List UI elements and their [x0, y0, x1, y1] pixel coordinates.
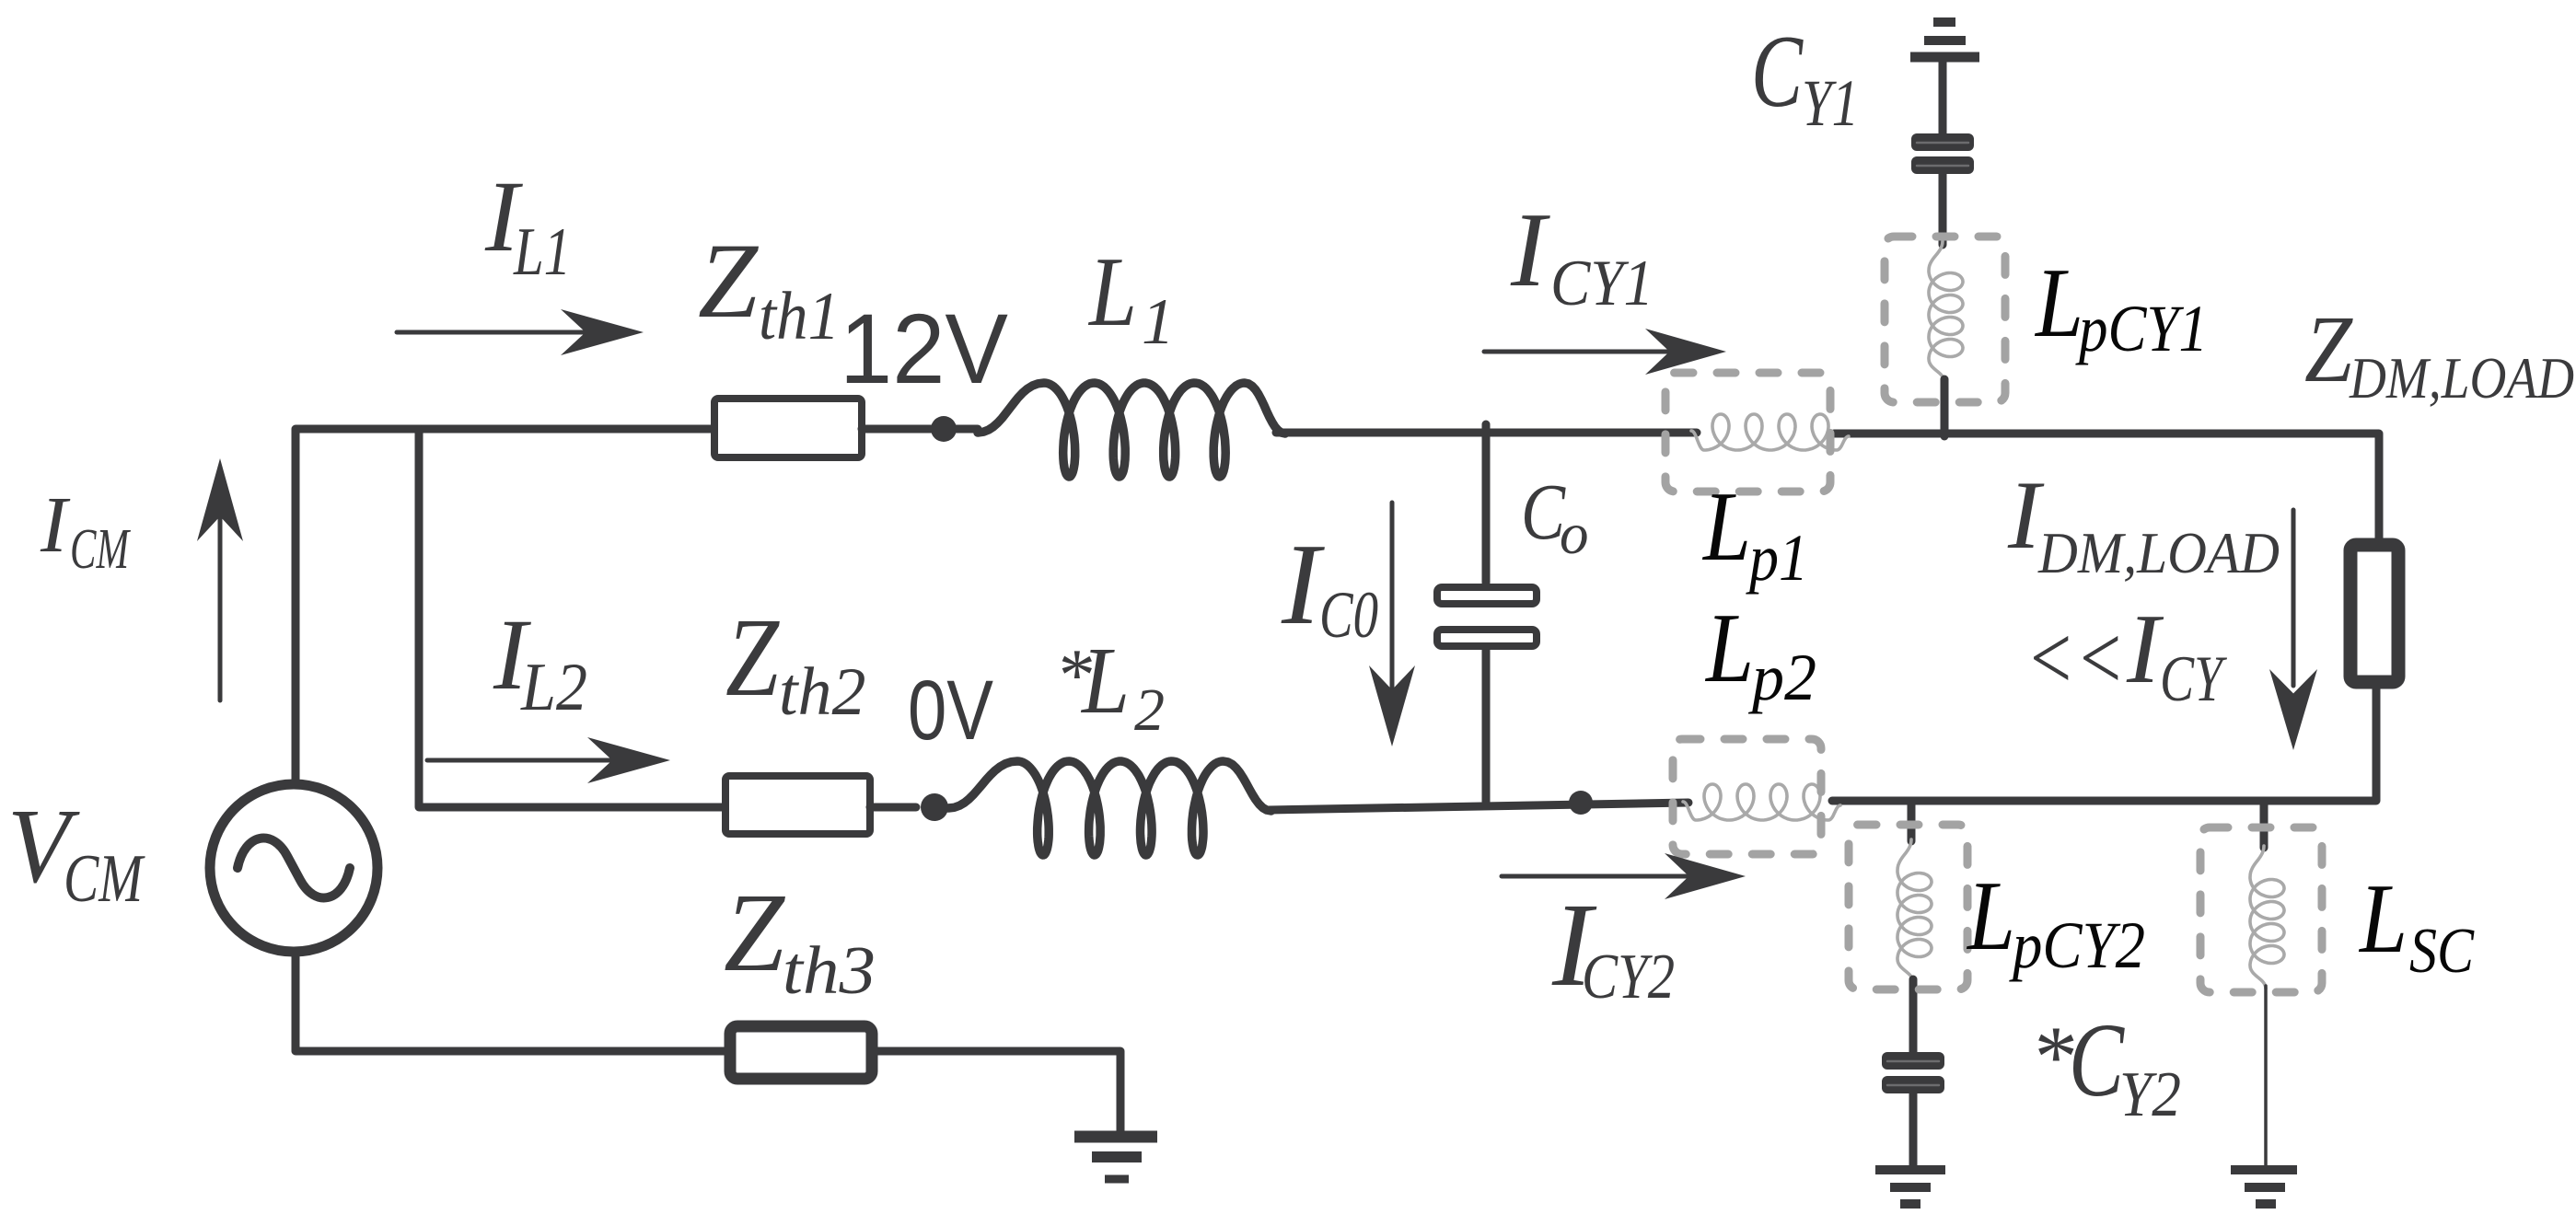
wire vertical branch to lower rail [419, 429, 729, 807]
svg-text:C: C [2069, 1001, 2126, 1118]
capacitor CY1 [1939, 62, 1947, 134]
svg-text:L: L [2034, 249, 2083, 358]
inductor L1 [978, 383, 1285, 477]
svg-text:Y1: Y1 [1802, 66, 1859, 140]
svg-text:p2: p2 [1747, 641, 1816, 714]
ground CY2 [1875, 1170, 1945, 1204]
svg-text:Y2: Y2 [2119, 1059, 2181, 1130]
wire lower rail mid [1269, 803, 1688, 810]
svg-text:I: I [1281, 521, 1325, 649]
capacitor CY2 [1882, 1052, 1944, 1070]
svg-text:12V: 12V [840, 293, 1008, 404]
svg-text:th3: th3 [783, 933, 876, 1009]
parasitic inductor LSC coil [2260, 801, 2269, 848]
parasitic inductor LpCY2 coil [1908, 801, 1916, 841]
svg-text:I: I [2126, 595, 2164, 704]
inductor L2 [948, 761, 1271, 855]
svg-text:0V: 0V [908, 664, 993, 758]
svg-text:CY2: CY2 [1582, 942, 1675, 1012]
ground LSC [2231, 1170, 2297, 1204]
svg-text:*: * [2030, 1008, 2074, 1105]
svg-text:L: L [1087, 237, 1137, 347]
svg-text:L: L [1966, 862, 2015, 971]
svg-text:L: L [1704, 594, 1754, 703]
wire VCM bottom [296, 956, 725, 1051]
svg-text:L2: L2 [520, 650, 587, 725]
dashed box Lp1 [1665, 373, 1830, 492]
parasitic inductor LpCY1 coil [1929, 241, 1963, 382]
svg-text:CY1: CY1 [1550, 248, 1654, 319]
arrow I_CM [218, 515, 223, 700]
ground CY1 (top, inverted) [1910, 22, 1979, 57]
svg-text:I: I [1510, 191, 1550, 308]
svg-text:CM: CM [64, 841, 145, 917]
resistor Zth1 [714, 399, 862, 457]
svg-text:SC: SC [2409, 916, 2475, 987]
wire lower rail right [1832, 683, 2376, 801]
dashed box LpCY2 [1849, 825, 1967, 989]
svg-text:C: C [1751, 15, 1804, 129]
node dot lower rail [1569, 791, 1593, 815]
dashed box Lp2 [1673, 739, 1821, 854]
node dot after Zth1 [931, 416, 957, 442]
node dot after Zth2 [921, 793, 948, 821]
resistor Zth3 [730, 1026, 872, 1079]
sine symbol [238, 839, 350, 898]
voltage source VCM [210, 784, 377, 952]
arrow I_CY2 [1502, 874, 1690, 879]
wire top rail right [1834, 434, 2379, 545]
svg-text:1: 1 [1142, 286, 1175, 358]
svg-text:CY: CY [2160, 643, 2227, 715]
arrow I_L2 [427, 758, 617, 763]
wire Zth3 right to ground [877, 1051, 1120, 1135]
svg-text:pCY1: pCY1 [2075, 292, 2208, 365]
parasitic inductor Lp2 coil [1683, 784, 1840, 820]
capacitor Co [1482, 424, 1491, 583]
svg-text:CM: CM [70, 518, 131, 581]
svg-text:L: L [1701, 472, 1751, 582]
ground Zth3 [1074, 1137, 1157, 1179]
svg-text:C0: C0 [1319, 578, 1378, 652]
wire top rail mid [1276, 429, 1697, 437]
resistor ZDM,LOAD [2350, 545, 2398, 682]
svg-text:p1: p1 [1746, 521, 1808, 595]
svg-text:Z: Z [725, 596, 780, 720]
svg-text:Z: Z [2304, 296, 2353, 402]
svg-text:pCY2: pCY2 [2009, 908, 2145, 982]
dashed box LSC [2200, 827, 2322, 992]
svg-text:Z: Z [698, 222, 760, 341]
svg-text:2: 2 [1134, 677, 1165, 744]
svg-text:o: o [1560, 502, 1589, 566]
svg-text:L: L [1080, 628, 1130, 734]
svg-text:th1: th1 [759, 279, 840, 354]
svg-text:<<: << [2025, 607, 2125, 709]
parasitic inductor Lp1 coil [1691, 414, 1849, 450]
svg-text:th2: th2 [779, 654, 866, 730]
arrow I_DM,LOAD [2292, 510, 2296, 686]
dashed box LpCY1 [1885, 237, 2005, 402]
svg-text:DM,LOAD: DM,LOAD [2037, 521, 2280, 585]
resistor Zth2 [725, 776, 870, 834]
arrow I_L1 [397, 330, 589, 335]
wire top rail left [296, 429, 978, 808]
svg-text:Z: Z [724, 871, 785, 995]
svg-text:L1: L1 [513, 214, 571, 290]
svg-text:I: I [40, 480, 71, 569]
svg-text:L: L [2358, 864, 2408, 974]
svg-text:DM,LOAD: DM,LOAD [2349, 346, 2574, 411]
arrow I_C0 [1390, 503, 1395, 690]
arrow I_CY1 [1484, 350, 1671, 354]
